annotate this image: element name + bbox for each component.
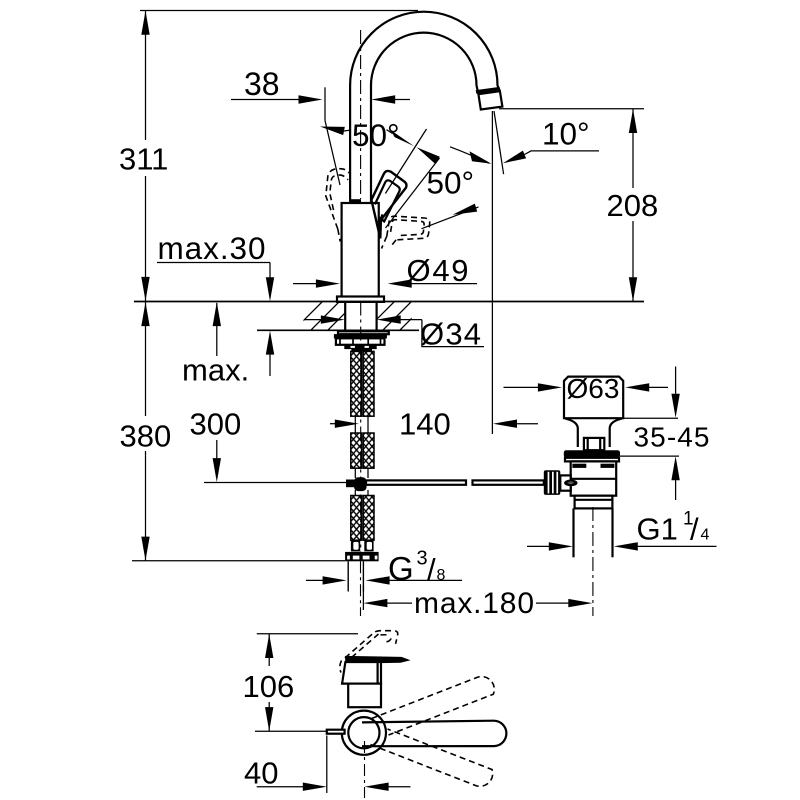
10 deg arrowhead [503,151,526,164]
dimension 311 line [145,11,147,141]
dimension 35-45 lower [671,456,679,480]
braided hose lower block left [351,496,362,541]
svg-text:max.180: max.180 [414,587,534,620]
leader line on folded lever [422,207,479,229]
svg-text:Ø63: Ø63 [567,373,620,404]
waste neck right curve [610,418,623,447]
svg-text:208: 208 [607,188,659,223]
top view centerline [364,741,366,798]
waste body slots [572,464,586,468]
svg-text:Ø34: Ø34 [420,317,481,352]
waste flange body [564,377,623,419]
dimension max.300 arrow down [213,458,221,482]
centerline faucet lower [360,302,362,560]
spout inner arc [371,33,478,94]
dimension 38 line [231,99,299,101]
pop-up rod left segment [366,480,466,484]
flange bottom reference line [623,417,678,419]
spout outer arc [350,12,500,91]
top view base circle inner [348,717,379,748]
top view pop-up rod stub [327,730,345,734]
hose end fitting right [364,540,373,551]
svg-text:311: 311 [119,142,168,177]
dimension diam34 line [305,319,322,321]
countertop bottom line [257,329,419,331]
svg-text:140: 140 [399,407,451,442]
spout tip vertical reference [491,111,493,434]
svg-text:max.: max. [182,353,249,388]
dimension 380 arrow up [141,302,149,326]
waste body [571,461,617,495]
waste neck left curve [565,418,578,447]
arrow to handle axis [320,127,345,136]
arrowhead on folded lever [453,204,478,215]
dimension 140 left arrow [330,423,336,425]
diam63 dimension right arrow [625,383,649,391]
G38 thread line left [347,561,349,591]
pop-up rod right segment [473,480,544,484]
dimension G38 line [306,579,324,581]
countertop section hatching left [293,301,374,331]
svg-text:106: 106 [243,669,295,704]
dimension max.30 underline [157,262,270,264]
top view spout swivel dashed lower [371,729,493,786]
dimension 35-45 upper [675,367,677,395]
waste top washer black [564,450,620,458]
lever axis line [385,129,426,194]
angle arc 50 [450,147,489,163]
dimension 38 arrow right [299,95,323,103]
svg-text:G1: G1 [637,512,678,547]
dimension 380 line [145,302,147,416]
svg-text:300: 300 [190,407,242,442]
dimension 311 arrow down [141,277,149,301]
10 deg leader line [525,151,600,155]
top view dashed lever lifted [345,631,398,658]
connection nuts base [345,552,379,561]
reference line pop-up rod level [204,482,351,484]
svg-text:Ø49: Ø49 [407,253,469,288]
washer bottom reference [620,455,679,457]
svg-text:50°: 50° [427,165,475,201]
waste tailpiece hub [575,496,613,509]
top view body column [348,684,381,708]
svg-text:max.30: max.30 [158,230,266,266]
hose union block [344,345,376,349]
top view dashed lever left edge [340,661,342,673]
dimension 38 arrow left [371,95,395,103]
braided hose upper block left [351,351,362,416]
spout pipe left edge [349,85,351,203]
centerline hose tail [360,561,362,616]
centerline faucet upper [360,30,362,199]
svg-text:/: / [690,512,699,547]
countertop top line [134,301,644,303]
dimension 311 arrow up [141,11,149,35]
dimension 106 line [268,634,270,666]
svg-text:/: / [427,552,436,587]
hose end fitting left [351,540,360,551]
braided hose middle block right [363,433,374,468]
svg-text:50°: 50° [352,117,400,153]
clevis pin [565,481,576,485]
angle arrows bowtie left [390,130,414,146]
dimension diam49 line [293,283,317,285]
braided hose upper block right [363,351,374,416]
spout tip horizontal reference [499,108,644,110]
svg-text:35-45: 35-45 [634,422,710,453]
svg-text:10°: 10° [542,116,590,152]
rod ball joint [354,477,367,491]
top view body shoulder [342,662,381,684]
aerator joint thick line [476,89,500,92]
angle arrows bowtie right [417,147,440,164]
top view handle bar black [345,656,411,664]
top view spout solid [362,721,506,747]
handle axis line tilted [325,121,340,186]
threaded shank left [344,302,346,331]
svg-text:3: 3 [417,548,428,570]
hose tube lines at rod [354,468,356,478]
hose crimp collar [351,349,372,351]
dimension max.30 arrow down [266,277,274,301]
svg-text:4: 4 [701,527,710,544]
lift knob [584,438,604,450]
svg-text:G: G [388,550,414,587]
rod clevis [560,475,570,490]
dimension max.300 line [216,303,218,356]
drain centerline [592,507,594,616]
tailpipe left edge [572,508,574,557]
braided hose lower block right [363,496,374,541]
rod adjuster knurled nut [544,470,561,495]
hose tube lines in break [354,416,356,433]
dimension 40 [326,736,328,794]
svg-text:8: 8 [437,567,446,584]
lever pivot black mark [350,199,361,203]
body [342,203,379,297]
mounting nut [336,338,385,345]
body base plate [337,297,384,302]
arc end arrowhead [470,151,492,164]
top reference line (overall height datum) [140,10,418,12]
waste washer white [565,458,619,462]
dimension 140 right arrow [493,420,517,428]
threaded shank right [376,302,378,331]
nut facet lines [340,339,381,345]
dimension max.300 arrow up [213,302,221,326]
dashed handle down-right position [387,216,430,240]
top view spout swivel dashed upper [372,677,495,735]
spout pipe right edge [370,85,372,203]
diam63 dimension left arrow [504,386,540,388]
waste body joint line [571,478,617,480]
rubber washer black [334,334,387,338]
dimension 208 arrow down [629,277,637,301]
lever hub joint black [378,216,382,224]
svg-text:380: 380 [120,419,172,454]
dimension 106 top reference [257,633,358,635]
dashed handle up-left position [326,169,350,229]
spout outlet axis 10 deg [494,111,504,174]
svg-text:40: 40 [244,756,278,791]
dimension 380 arrow down [141,537,149,561]
countertop section hatching right [365,301,429,331]
solid lever inner line [375,180,400,221]
top view base circle outer [342,711,386,755]
dimension max.180 [387,602,412,604]
aerator box [478,91,502,109]
solid lever outer [371,171,406,238]
svg-text:38: 38 [244,66,280,102]
leader to lever-down [386,158,440,228]
dimension 208 line [632,109,634,188]
braided hose middle block left [351,433,362,468]
shank washer [338,331,389,334]
dimension 38 extension line [324,87,326,120]
dimension max.30 arrow up [266,331,274,355]
rod clamp block [346,480,355,488]
dimension G1 1/4 [527,545,550,547]
tailpipe right edge [611,508,613,557]
dimension 208 arrow up [629,109,637,133]
dimension 106 bottom reference [255,730,327,732]
G38 thread line right [362,561,364,591]
datum line at hose connector level [132,560,345,562]
